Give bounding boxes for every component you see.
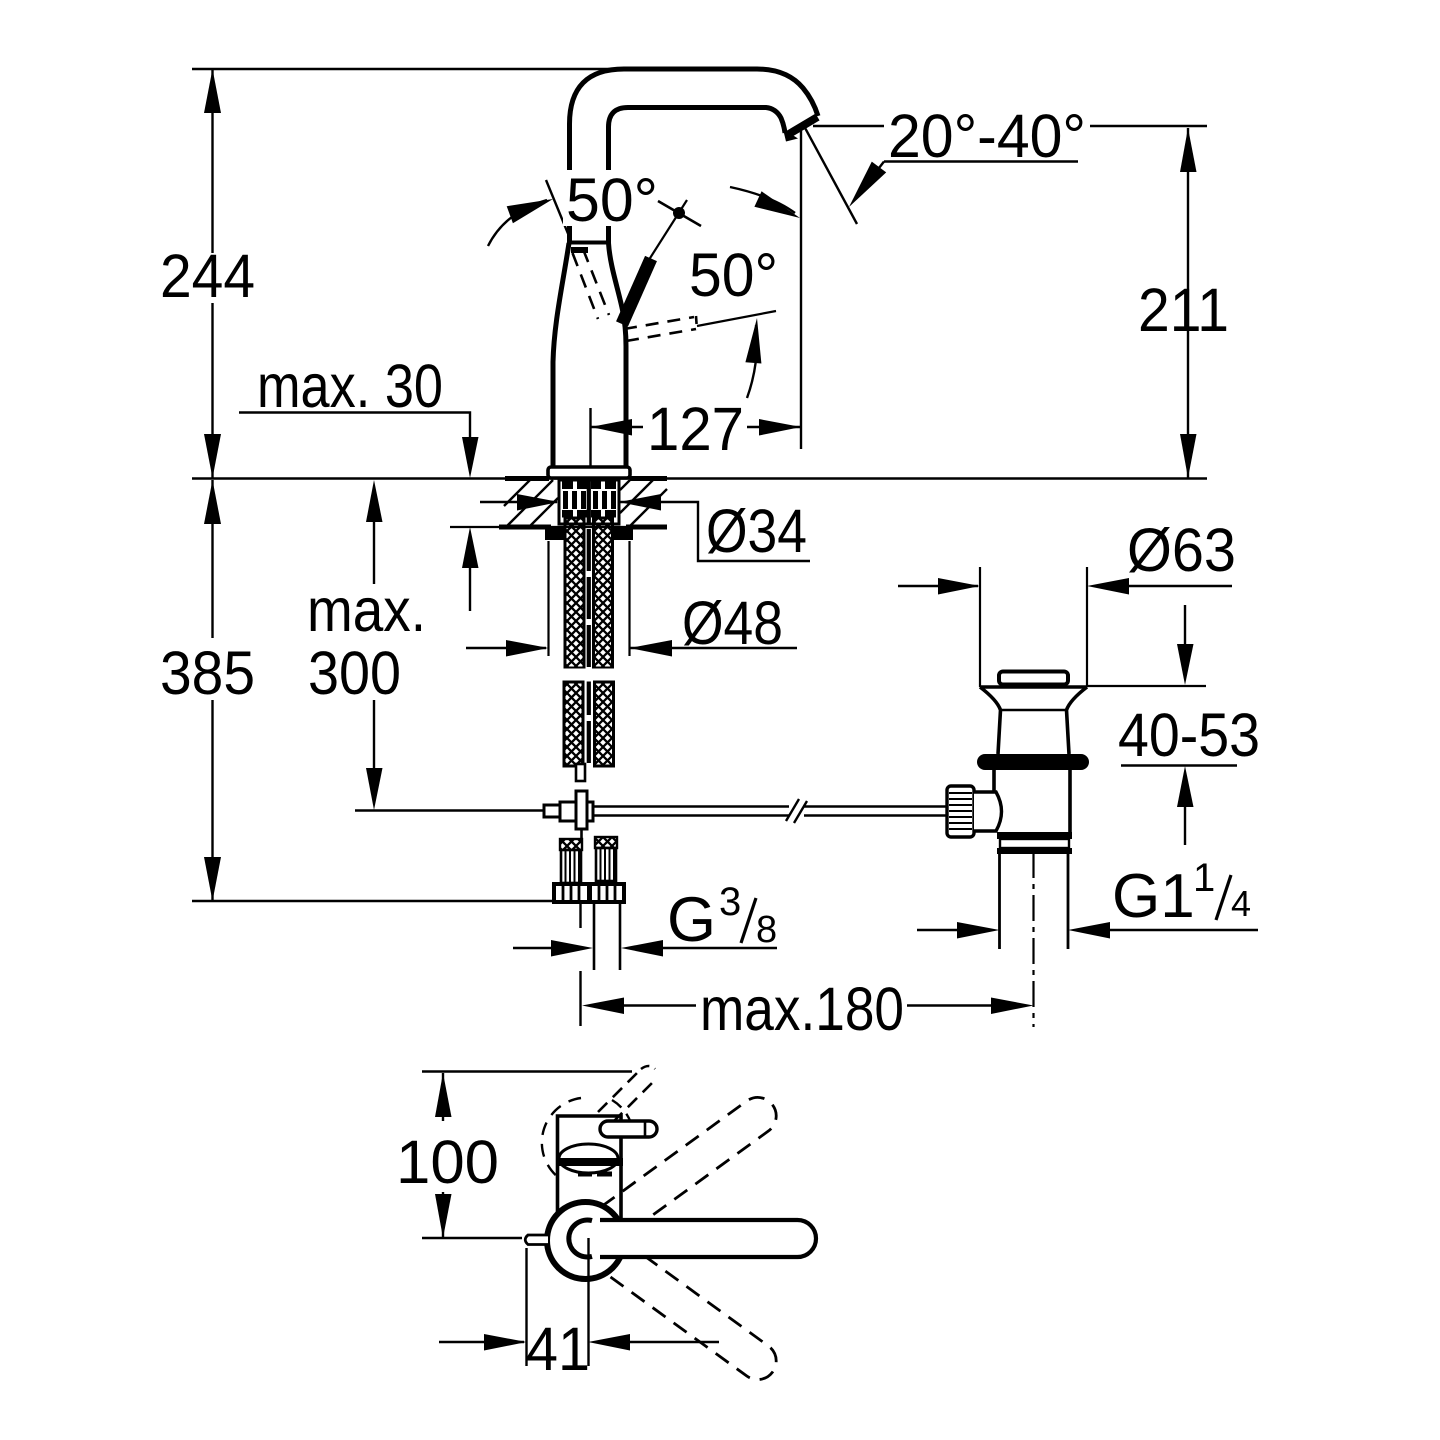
mounting nut left half [545, 527, 565, 540]
horizontal rod left part [593, 807, 789, 816]
rod left cap [544, 805, 561, 817]
swivel joint line [569, 241, 609, 245]
right connector nut [590, 884, 624, 902]
dimension 244 line [204, 69, 221, 478]
svg-text:100: 100 [396, 1128, 499, 1196]
svg-text:1: 1 [1193, 856, 1215, 900]
spout inner profile [609, 108, 786, 137]
svg-text:Ø48: Ø48 [682, 589, 783, 657]
left valve ribbed body [561, 850, 581, 883]
top view black band [556, 1158, 623, 1166]
svg-text:50°: 50° [566, 166, 658, 234]
faucet centreline extension [589, 408, 591, 466]
spout outlet face [787, 117, 818, 136]
lever cap dash [571, 247, 588, 253]
svg-text:4: 4 [1231, 883, 1251, 924]
spout tip extension line [800, 131, 802, 449]
top view dashed lever down-right [602, 1241, 784, 1387]
counter section edge thick top right [630, 476, 667, 481]
left hose lower [564, 682, 583, 766]
top view cartridge housing [558, 1116, 622, 1218]
drain flange [980, 687, 1087, 754]
bottom reference line (hose ends level) [192, 900, 624, 902]
dashed lever (open position) [624, 316, 697, 341]
water stream line [804, 126, 857, 224]
dimension max30 leader and arrows [239, 413, 479, 612]
svg-text:Ø63: Ø63 [1127, 516, 1236, 584]
top view solid lever [600, 1220, 816, 1257]
barrel lower ring light [1000, 839, 1069, 848]
left valve mesh cap [560, 839, 582, 850]
top view pivot circle [547, 1202, 624, 1279]
right valve mesh cap [595, 837, 617, 848]
counter section edge thick top left [505, 476, 549, 481]
right valve ribbed body [596, 848, 616, 881]
barrel lower ring dark2 [997, 848, 1072, 854]
axis cross mark [658, 201, 701, 226]
lever axis extension line [645, 200, 687, 266]
dimension max180 arrows [582, 998, 1034, 1015]
left valve centreline [579, 904, 581, 1026]
top view dashed swivel circle [542, 1098, 581, 1183]
pull rod vertical [587, 481, 591, 764]
barrel lower ring dark [997, 832, 1072, 839]
svg-text:20°-40°: 20°-40° [888, 102, 1086, 170]
svg-text:G: G [667, 885, 716, 955]
lever handle [622, 259, 651, 325]
left swivel arc arrow [488, 199, 553, 246]
label 50 deg (spout swivel) [563, 166, 663, 234]
50 degree reference slash [546, 180, 569, 236]
dimension 211 line [1180, 128, 1197, 478]
svg-text:41: 41 [526, 1315, 590, 1383]
counter underside line [450, 526, 667, 528]
svg-text:244: 244 [160, 242, 255, 310]
dimension Ø48 arrows [466, 640, 797, 657]
svg-text:211: 211 [1138, 276, 1229, 344]
top view ellipse arc [559, 1144, 618, 1173]
label 40-53 underline [1121, 764, 1237, 766]
dimension 40-53 upper arrow [1177, 605, 1194, 685]
flange top extension line [1087, 685, 1206, 687]
Ø63 extension lines [980, 567, 1087, 687]
pop-up plug knob [999, 672, 1068, 685]
drain tail pipe [1000, 854, 1069, 949]
drain centreline [1032, 852, 1034, 1027]
svg-text:300: 300 [308, 639, 401, 707]
svg-text:max.: max. [307, 576, 426, 644]
mounting nut right half [612, 527, 633, 540]
left connector nut [554, 884, 589, 902]
left hose upper [565, 518, 584, 668]
top view dashed lever up-right [602, 1090, 784, 1236]
horizontal rod right part [804, 807, 947, 816]
counter hatch right [620, 480, 667, 526]
svg-text:max.180: max.180 [700, 975, 904, 1043]
svg-text:385: 385 [160, 639, 255, 707]
top view lever left cap [569, 1220, 592, 1257]
spout pipe left wall [567, 134, 572, 243]
shank thread top band [562, 482, 616, 490]
top view left knob [525, 1235, 548, 1245]
supply pipe walls [594, 903, 620, 970]
actuator connector [974, 792, 1002, 831]
spout outer profile [570, 69, 819, 136]
dashed lever (vertical position) [573, 249, 610, 319]
leader lines for 20-40 [813, 126, 1207, 207]
dimension 41 [439, 1238, 719, 1366]
dimension 40-53 lower arrow [1177, 766, 1194, 845]
base plate [548, 467, 630, 478]
spout pipe right wall [606, 134, 611, 243]
countertop line [192, 477, 1207, 479]
label G 3/8 [667, 880, 777, 955]
svg-text:Ø34: Ø34 [706, 497, 807, 565]
svg-text:50°: 50° [689, 241, 778, 309]
dimension Ø63 arrows [898, 578, 1232, 595]
lever open direction line [697, 311, 776, 326]
lever angle arc arrow [745, 318, 761, 398]
svg-text:8: 8 [756, 909, 777, 951]
body left contour [553, 243, 569, 466]
rod thin left line [355, 809, 544, 811]
knurled actuator knob [947, 786, 974, 837]
dimension 385 line [204, 480, 221, 901]
rubber gasket [977, 754, 1089, 770]
dimension 100 [422, 1072, 632, 1239]
top view inner dashes [578, 1172, 612, 1177]
top reference line [192, 68, 640, 71]
right swivel arc arrow [730, 187, 800, 218]
rod drop from hoses [576, 764, 585, 781]
pin lower tick [580, 829, 583, 839]
counter underside thick right [626, 525, 667, 530]
right hose lower [595, 682, 614, 766]
counter hatch left [504, 480, 558, 526]
svg-text:40-53: 40-53 [1118, 701, 1260, 769]
dimension G3/8 arrows [513, 940, 777, 957]
right hose upper [594, 518, 613, 668]
rod joint block [560, 802, 593, 821]
drain barrel [994, 770, 1070, 832]
svg-text:127: 127 [647, 395, 744, 463]
spout outlet lower lip [783, 129, 798, 142]
svg-text:G1: G1 [1112, 862, 1195, 931]
svg-text:3: 3 [719, 880, 741, 924]
shank thread bottom band [562, 510, 616, 518]
Ø48 extension lines [549, 541, 630, 656]
hose break gap [563, 669, 620, 682]
top view dashed swivel circle right fragment [612, 1100, 631, 1123]
rod break marks [786, 799, 807, 823]
top view lever knob [600, 1121, 657, 1137]
top view lever upward dashes [598, 1066, 655, 1122]
dimension Ø34 arrows [480, 494, 810, 561]
shank outline [559, 480, 619, 524]
counter underside thick left [499, 525, 551, 530]
shank thread bars [563, 491, 616, 509]
label G1 1/4 [1112, 856, 1251, 931]
dimension 127 arrows [591, 419, 802, 436]
dimension G1 1/4 arrows [917, 922, 1258, 939]
rod vertical pin [576, 791, 587, 829]
dimension max300 line [366, 480, 383, 810]
svg-text:max. 30: max. 30 [257, 352, 443, 420]
body right contour [609, 243, 627, 466]
